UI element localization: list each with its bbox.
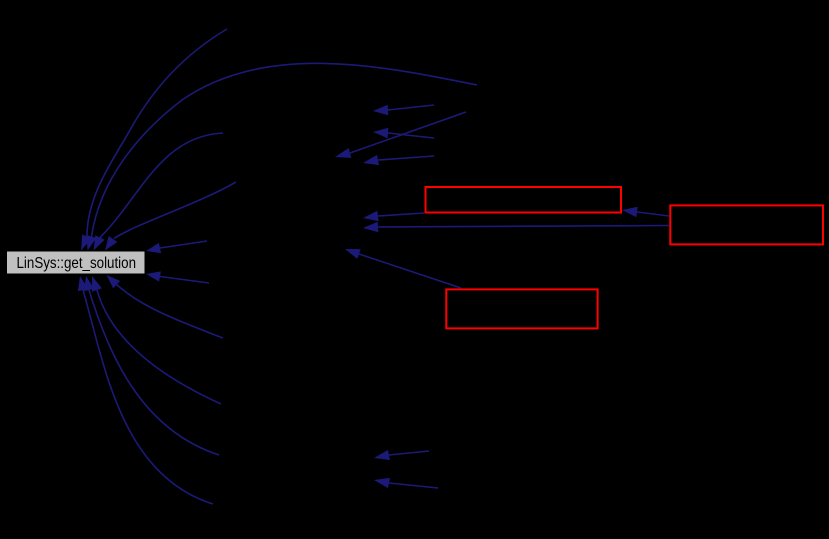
edge G from red box 2 into red box 1 (637, 212, 669, 216)
red node box 3 (truncated caller) (446, 289, 597, 328)
arrowhead D (363, 155, 379, 165)
edge B line into middle node (373,132) (388, 133, 434, 138)
arrowhead T3 (94, 235, 105, 250)
edge B3 curve from LinSys::get_solution bottom to node at (219,455) (89, 290, 219, 455)
arrowhead T1 (81, 235, 92, 251)
arrowhead T2 (87, 235, 97, 250)
arrowhead B2 (92, 276, 102, 292)
edge T3 curve from node at (223,133) to LinSys::get_solution top (100, 133, 223, 238)
arrowhead R1 (146, 243, 161, 253)
edge T1 curve from node at (227,29) to LinSys::get_solution top (87, 29, 227, 237)
edge J line into bottom middle node (374,480) (389, 483, 438, 488)
edge C long diagonal into middle node (335,157) (350, 112, 466, 153)
arrowhead B (373, 128, 388, 138)
node LinSys::get_solution (current function, grey box) (7, 251, 146, 274)
arrowhead H (345, 249, 361, 259)
arrowhead I (374, 450, 390, 460)
edge F from red box 2 into middle node (363,228) (378, 226, 669, 228)
edge R1 line into right edge of LinSys::get_solution (160, 241, 207, 248)
edge B2 curve from LinSys::get_solution bottom to node at (221,404) (97, 290, 221, 404)
arrowhead B1 (107, 275, 121, 288)
arrowhead J (374, 478, 390, 488)
arrowhead B3 (84, 276, 94, 291)
edge B4 curve from LinSys::get_solution bottom to node at (213,504) (83, 290, 213, 504)
arrowhead A (373, 105, 388, 115)
arrowhead T4 (105, 236, 117, 251)
edge I line into bottom middle node (374,458) (389, 451, 429, 455)
edge T2 big arc from node at (477,85) to LinSys::get_solution top (92, 63, 478, 236)
arrowhead F (363, 222, 378, 232)
edge T4 curve from node at (236,182) to LinSys::get_solution top (114, 182, 236, 239)
edge A line into middle node (373,111) (388, 105, 434, 110)
arrowhead R2 (146, 271, 161, 281)
red node box 1 (truncated caller) (426, 187, 622, 213)
edge D line into middle node (363,163) (378, 156, 434, 160)
arrowhead B4 (78, 276, 88, 291)
edge R2 line into bottom-right of LinSys::get_solution (160, 277, 209, 284)
arrowhead G (622, 207, 638, 217)
edge E from red box 1 corner into middle node (363,218) (378, 213, 424, 216)
arrowhead E (363, 211, 379, 221)
svg-text:LinSys::get_solution: LinSys::get_solution (17, 255, 137, 272)
red node box 2 (truncated caller) (670, 205, 823, 244)
edge B1 curve from LinSys::get_solution bottom to node at (223,338) (116, 284, 223, 338)
edge H from red box 3 into middle node (345,249) (359, 254, 461, 288)
arrowhead C (335, 148, 351, 158)
